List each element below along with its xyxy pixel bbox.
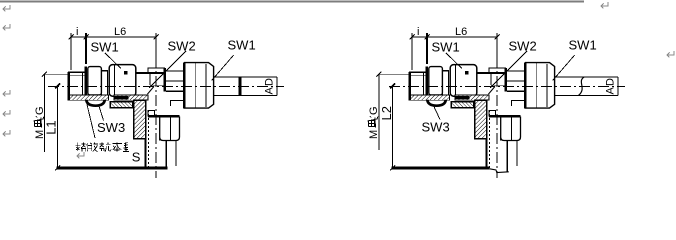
L2 dimension	[390, 84, 395, 171]
leader SW1 right	[212, 55, 234, 80]
svg-text:SW1: SW1	[432, 40, 460, 55]
M dimension right	[377, 72, 409, 150]
svg-text:i: i	[76, 26, 78, 38]
male thread stub	[68, 67, 86, 101]
dark squeeze	[114, 96, 129, 100]
bottom end with break jog	[391, 167, 489, 170]
leader SW1 left	[105, 53, 121, 69]
leader SW2	[149, 51, 186, 88]
vertical pipe centerline	[155, 57, 157, 178]
svg-text:S: S	[132, 150, 141, 165]
lower tube nut	[148, 116, 180, 140]
elbow body	[136, 68, 165, 92]
svg-text:SW1: SW1	[228, 38, 256, 53]
svg-text:L6: L6	[114, 26, 126, 38]
svg-text:SW3: SW3	[422, 120, 450, 135]
big nut	[109, 65, 136, 97]
L1 dimension	[55, 84, 60, 171]
M or G rotated label with drawn CJK	[34, 106, 47, 139]
svg-text:SW2: SW2	[168, 39, 196, 54]
mi	[112, 143, 122, 152]
rubber soft seal CJK label drawn as strokes	[76, 143, 130, 152]
xiang	[76, 143, 87, 152]
ruan	[100, 143, 111, 152]
pilcrow return marks	[3, 2, 674, 159]
svg-text:i: i	[417, 26, 419, 38]
bottom bold end line	[56, 167, 167, 170]
tube right	[214, 77, 277, 95]
top ruled line	[0, 1, 584, 3]
svg-text:L2: L2	[379, 106, 394, 120]
hatched bulkhead band	[70, 95, 109, 100]
feng	[123, 143, 129, 152]
dimension line i / L6	[69, 33, 159, 70]
leader SW3	[99, 105, 104, 121]
elbow lower stub hatched	[134, 100, 146, 139]
svg-text:SW1: SW1	[569, 38, 597, 53]
notch2 white square	[148, 110, 155, 116]
leader SW3 right	[433, 105, 440, 120]
svg-text:M: M	[368, 130, 380, 139]
small step above lower nut	[170, 101, 184, 107]
svg-text:G: G	[368, 106, 380, 115]
ferrule bold mark on tube	[239, 77, 242, 95]
vertical pipe walls	[145, 110, 176, 168]
bowl seal lip	[86, 100, 105, 106]
svg-text:L6: L6	[455, 26, 467, 38]
svg-text:AD: AD	[264, 78, 276, 95]
M dimension	[42, 72, 68, 152]
svg-text:SW3: SW3	[97, 120, 125, 135]
svg-text:G: G	[34, 106, 46, 115]
leader rubber seal note	[87, 105, 95, 139]
collar	[101, 71, 107, 95]
svg-text:SW2: SW2	[509, 39, 537, 54]
wavy tube break	[579, 77, 585, 95]
horizontal centerline	[48, 86, 284, 88]
nut 1	[88, 67, 102, 95]
right nut	[184, 62, 214, 108]
rubber seal	[110, 102, 133, 108]
chamfer corner	[147, 86, 154, 94]
svg-text:M: M	[34, 130, 46, 139]
svg-text:SW1: SW1	[91, 40, 119, 55]
stub to right nut	[165, 71, 185, 91]
jiao	[87, 143, 98, 152]
